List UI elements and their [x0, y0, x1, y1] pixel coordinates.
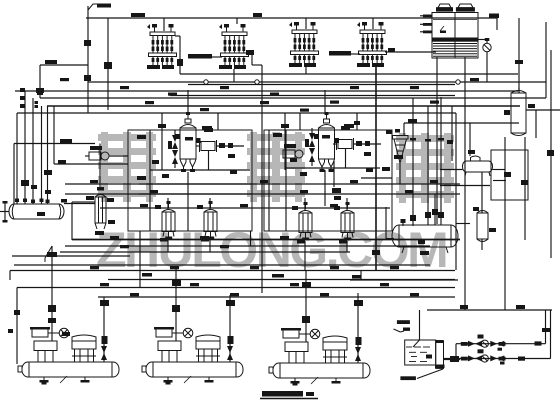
vessel V-left — [95, 195, 106, 230]
small vessel A2 — [204, 201, 217, 240]
pipe bus y95 — [170, 95, 455, 97]
title text — [262, 391, 303, 397]
tank inlet — [419, 310, 421, 340]
pipe y208 — [100, 207, 390, 209]
small vessel right — [477, 211, 488, 242]
pump PA-left — [89, 152, 109, 160]
pipe bus y98 — [40, 97, 546, 99]
tank feed drops — [412, 194, 414, 226]
funnel separator — [393, 136, 409, 164]
pump line 2 — [444, 358, 551, 360]
wire left branch y65 — [40, 64, 88, 66]
manifold 1 outlet — [175, 35, 180, 37]
pipe bus y91 — [15, 90, 518, 92]
pipe y194 — [65, 193, 460, 195]
block B lower pipes — [286, 167, 380, 169]
riser pump1 discharge — [103, 297, 105, 362]
pipe y270 — [10, 270, 455, 272]
tower pump P-ct — [478, 39, 487, 41]
block A inner pipes — [149, 130, 151, 231]
block B inner pipes — [285, 130, 287, 231]
valve manifold group 1 — [147, 24, 177, 69]
svg-text:ZHULONG.COM: ZHULONG.COM — [96, 222, 446, 278]
HX A — [200, 140, 217, 152]
tank T-mid — [392, 225, 458, 253]
wire second riser — [107, 18, 109, 110]
leader label pair1 — [211, 56, 222, 58]
svessel drains — [167, 239, 169, 252]
pump assembly PU3 — [269, 328, 370, 386]
pipe y184 — [65, 183, 460, 185]
pipe y310 — [427, 309, 552, 311]
right block partial — [491, 150, 528, 200]
pipe y280 segment — [350, 279, 458, 281]
vessel V-A — [176, 112, 201, 172]
wires tower down — [436, 57, 438, 224]
chiller block A outline — [128, 130, 252, 231]
riser pump2 discharge — [229, 295, 231, 362]
pipe bus y106 — [47, 105, 520, 107]
valve manifold group 2 — [219, 24, 249, 69]
pipe y297 — [98, 296, 455, 298]
pipe labels mid — [90, 180, 98, 183]
pump assembly PU2 — [142, 327, 243, 385]
bus left verticals — [53, 106, 55, 164]
riser pump1 suction — [51, 246, 53, 341]
tank feed risers extended — [412, 98, 414, 194]
right verticals — [504, 137, 506, 310]
wire vessel A top — [187, 90, 189, 112]
pipe labels — [60, 78, 69, 81]
watermark row1 — [98, 132, 454, 203]
tank left elbow — [385, 207, 387, 239]
valve manifold group 3 — [289, 22, 319, 67]
pipe y240 — [72, 239, 460, 241]
left feed pipes into tank — [16, 113, 18, 204]
pipe bus y74 — [180, 73, 518, 75]
misc cluster left of tank — [332, 188, 341, 193]
pipe bus y82 — [88, 81, 546, 83]
pipe y279 — [108, 279, 455, 281]
riser pump3 discharge — [357, 293, 359, 363]
wire y185 right — [440, 185, 490, 187]
small vessel A1 — [162, 201, 175, 240]
manifold 4 outlet — [385, 51, 396, 53]
block A lower pipes — [150, 169, 250, 171]
water tank WT — [405, 340, 444, 368]
valve manifold group 4 — [357, 22, 387, 67]
vessel A left valves — [172, 135, 178, 149]
pump assembly PU1 — [18, 327, 119, 385]
small vessel B1 — [299, 202, 312, 241]
vessel V-right tall — [511, 91, 526, 136]
leader label pair2 — [350, 53, 360, 55]
pipe y246 — [65, 245, 430, 247]
riser pump2 suction — [175, 269, 177, 341]
tank water line — [406, 347, 430, 362]
cooling tower CT1 — [432, 4, 478, 58]
riser pump3 suction — [305, 270, 307, 342]
pipe bus y84 — [188, 84, 455, 86]
vessel B left valves — [309, 133, 315, 147]
manifold 2 outlet — [247, 53, 252, 55]
wire top header y18 — [86, 17, 497, 19]
small vessel B2 — [341, 202, 354, 241]
tower side stubs — [423, 15, 432, 18]
right risers — [545, 310, 547, 344]
vessel V-B — [314, 112, 339, 172]
wire top-left riser — [87, 6, 89, 113]
left edge vertical — [16, 288, 18, 365]
block outlet verticals — [261, 65, 263, 293]
bus-to-block stubs — [161, 113, 163, 170]
pipe y123 right — [404, 122, 519, 124]
pipe bus y113 — [17, 112, 456, 114]
HX B — [337, 138, 354, 150]
pump-strainer right — [463, 156, 493, 176]
pump line 1 — [456, 343, 546, 345]
pipe y256 — [12, 255, 130, 257]
tank leaders — [394, 329, 405, 332]
tank outlet — [444, 359, 461, 361]
pipe y287 — [17, 287, 455, 289]
pipe y252 — [60, 251, 350, 253]
pipe y265 — [60, 264, 430, 266]
chiller block B outline — [264, 130, 392, 231]
tank T-left — [9, 204, 64, 219]
pump PB-left — [283, 150, 303, 158]
